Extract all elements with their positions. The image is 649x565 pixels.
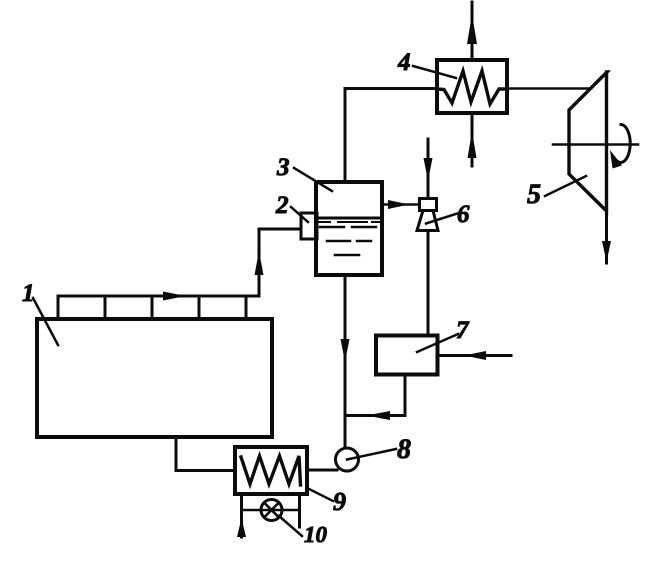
svg-text:6: 6	[457, 201, 470, 228]
duct top line on box 1	[58, 295, 259, 298]
wire drum to ejector 6	[382, 203, 420, 206]
stub wire right below 9	[298, 494, 301, 527]
dashed water line a	[319, 221, 381, 223]
duct divider 5	[245, 296, 248, 319]
pointer line label 9	[307, 488, 333, 501]
arrow left into 7	[464, 351, 486, 360]
dashed water line c	[327, 240, 371, 243]
pump 8	[336, 448, 359, 471]
turbine exhaust wire	[605, 211, 608, 263]
pointer line label 10	[279, 516, 302, 536]
pointer line label 7	[417, 334, 458, 352]
svg-text:7: 7	[456, 317, 470, 344]
economizer riser wire duct to box 2	[259, 229, 301, 296]
rotation arc	[617, 125, 630, 163]
turbine 5	[569, 72, 607, 211]
pointer line label 4	[413, 66, 456, 78]
arrow up below 4	[468, 131, 477, 158]
gas in wire below 4	[471, 113, 474, 166]
pointer line label 6	[426, 213, 459, 224]
wire 7 outlet	[345, 375, 405, 416]
steam drum 3	[316, 182, 382, 275]
duct divider 4	[198, 296, 201, 319]
superheater box 4	[437, 60, 507, 113]
svg-text:8: 8	[397, 434, 411, 465]
pointer line label 3	[294, 168, 332, 191]
superheater coil zigzag	[437, 71, 507, 104]
duct divider 2	[104, 296, 107, 319]
ejector 6 square	[420, 199, 437, 211]
arrow down exhaust	[602, 241, 611, 262]
svg-text:5: 5	[527, 179, 541, 210]
economizer inlet box 2	[301, 213, 317, 239]
wire box1 to heater 9	[176, 437, 235, 471]
ejector 6 cone	[417, 211, 438, 231]
flue gas out wire above 4	[471, 2, 474, 60]
svg-text:4: 4	[397, 49, 411, 76]
wire into ejector top	[427, 139, 430, 199]
arrow down on downcomer	[341, 339, 350, 362]
arrow left on outlet	[366, 411, 390, 420]
water level line	[317, 217, 381, 220]
svg-text:3: 3	[276, 154, 290, 181]
arrow right to ejector	[388, 200, 409, 209]
furnace box 1	[37, 319, 272, 437]
heater coil zigzag	[241, 456, 301, 485]
arrow right on duct	[163, 292, 186, 301]
arrow up on drain	[237, 518, 246, 537]
pointer line label 5	[545, 176, 586, 196]
arrow down into ejector	[424, 158, 433, 181]
makeup water wire into 7	[438, 354, 512, 357]
pump suction wire	[307, 469, 337, 472]
deaerator box 7	[376, 336, 438, 375]
duct divider 1	[57, 296, 60, 319]
pointer line label 1	[33, 298, 58, 345]
svg-text:9: 9	[333, 487, 346, 516]
wire 4 to turbine	[507, 87, 591, 90]
turbine shaft	[553, 143, 638, 146]
duct divider 3	[151, 296, 154, 319]
wire drum top to superheater 4	[345, 89, 437, 183]
valve 10 cross line a	[264, 503, 279, 518]
short water line d	[335, 254, 359, 257]
pointer line label 8	[347, 449, 396, 460]
ejector outlet wire	[427, 231, 430, 336]
svg-text:1: 1	[22, 280, 35, 307]
downcomer wire drum to pump	[344, 275, 347, 448]
dashed water line b	[320, 226, 376, 229]
arrow up above 4	[467, 14, 477, 44]
water heater 9	[235, 447, 307, 494]
arrow up on riser	[255, 251, 264, 275]
valve 10 cross line b	[264, 503, 279, 518]
drain wire below 9	[240, 494, 243, 537]
valve wire	[242, 509, 300, 512]
valve 10	[261, 500, 282, 521]
svg-text:2: 2	[275, 192, 289, 219]
pointer line label 2	[291, 207, 308, 222]
svg-text:10: 10	[304, 522, 328, 547]
rotation arrowhead	[610, 150, 622, 169]
